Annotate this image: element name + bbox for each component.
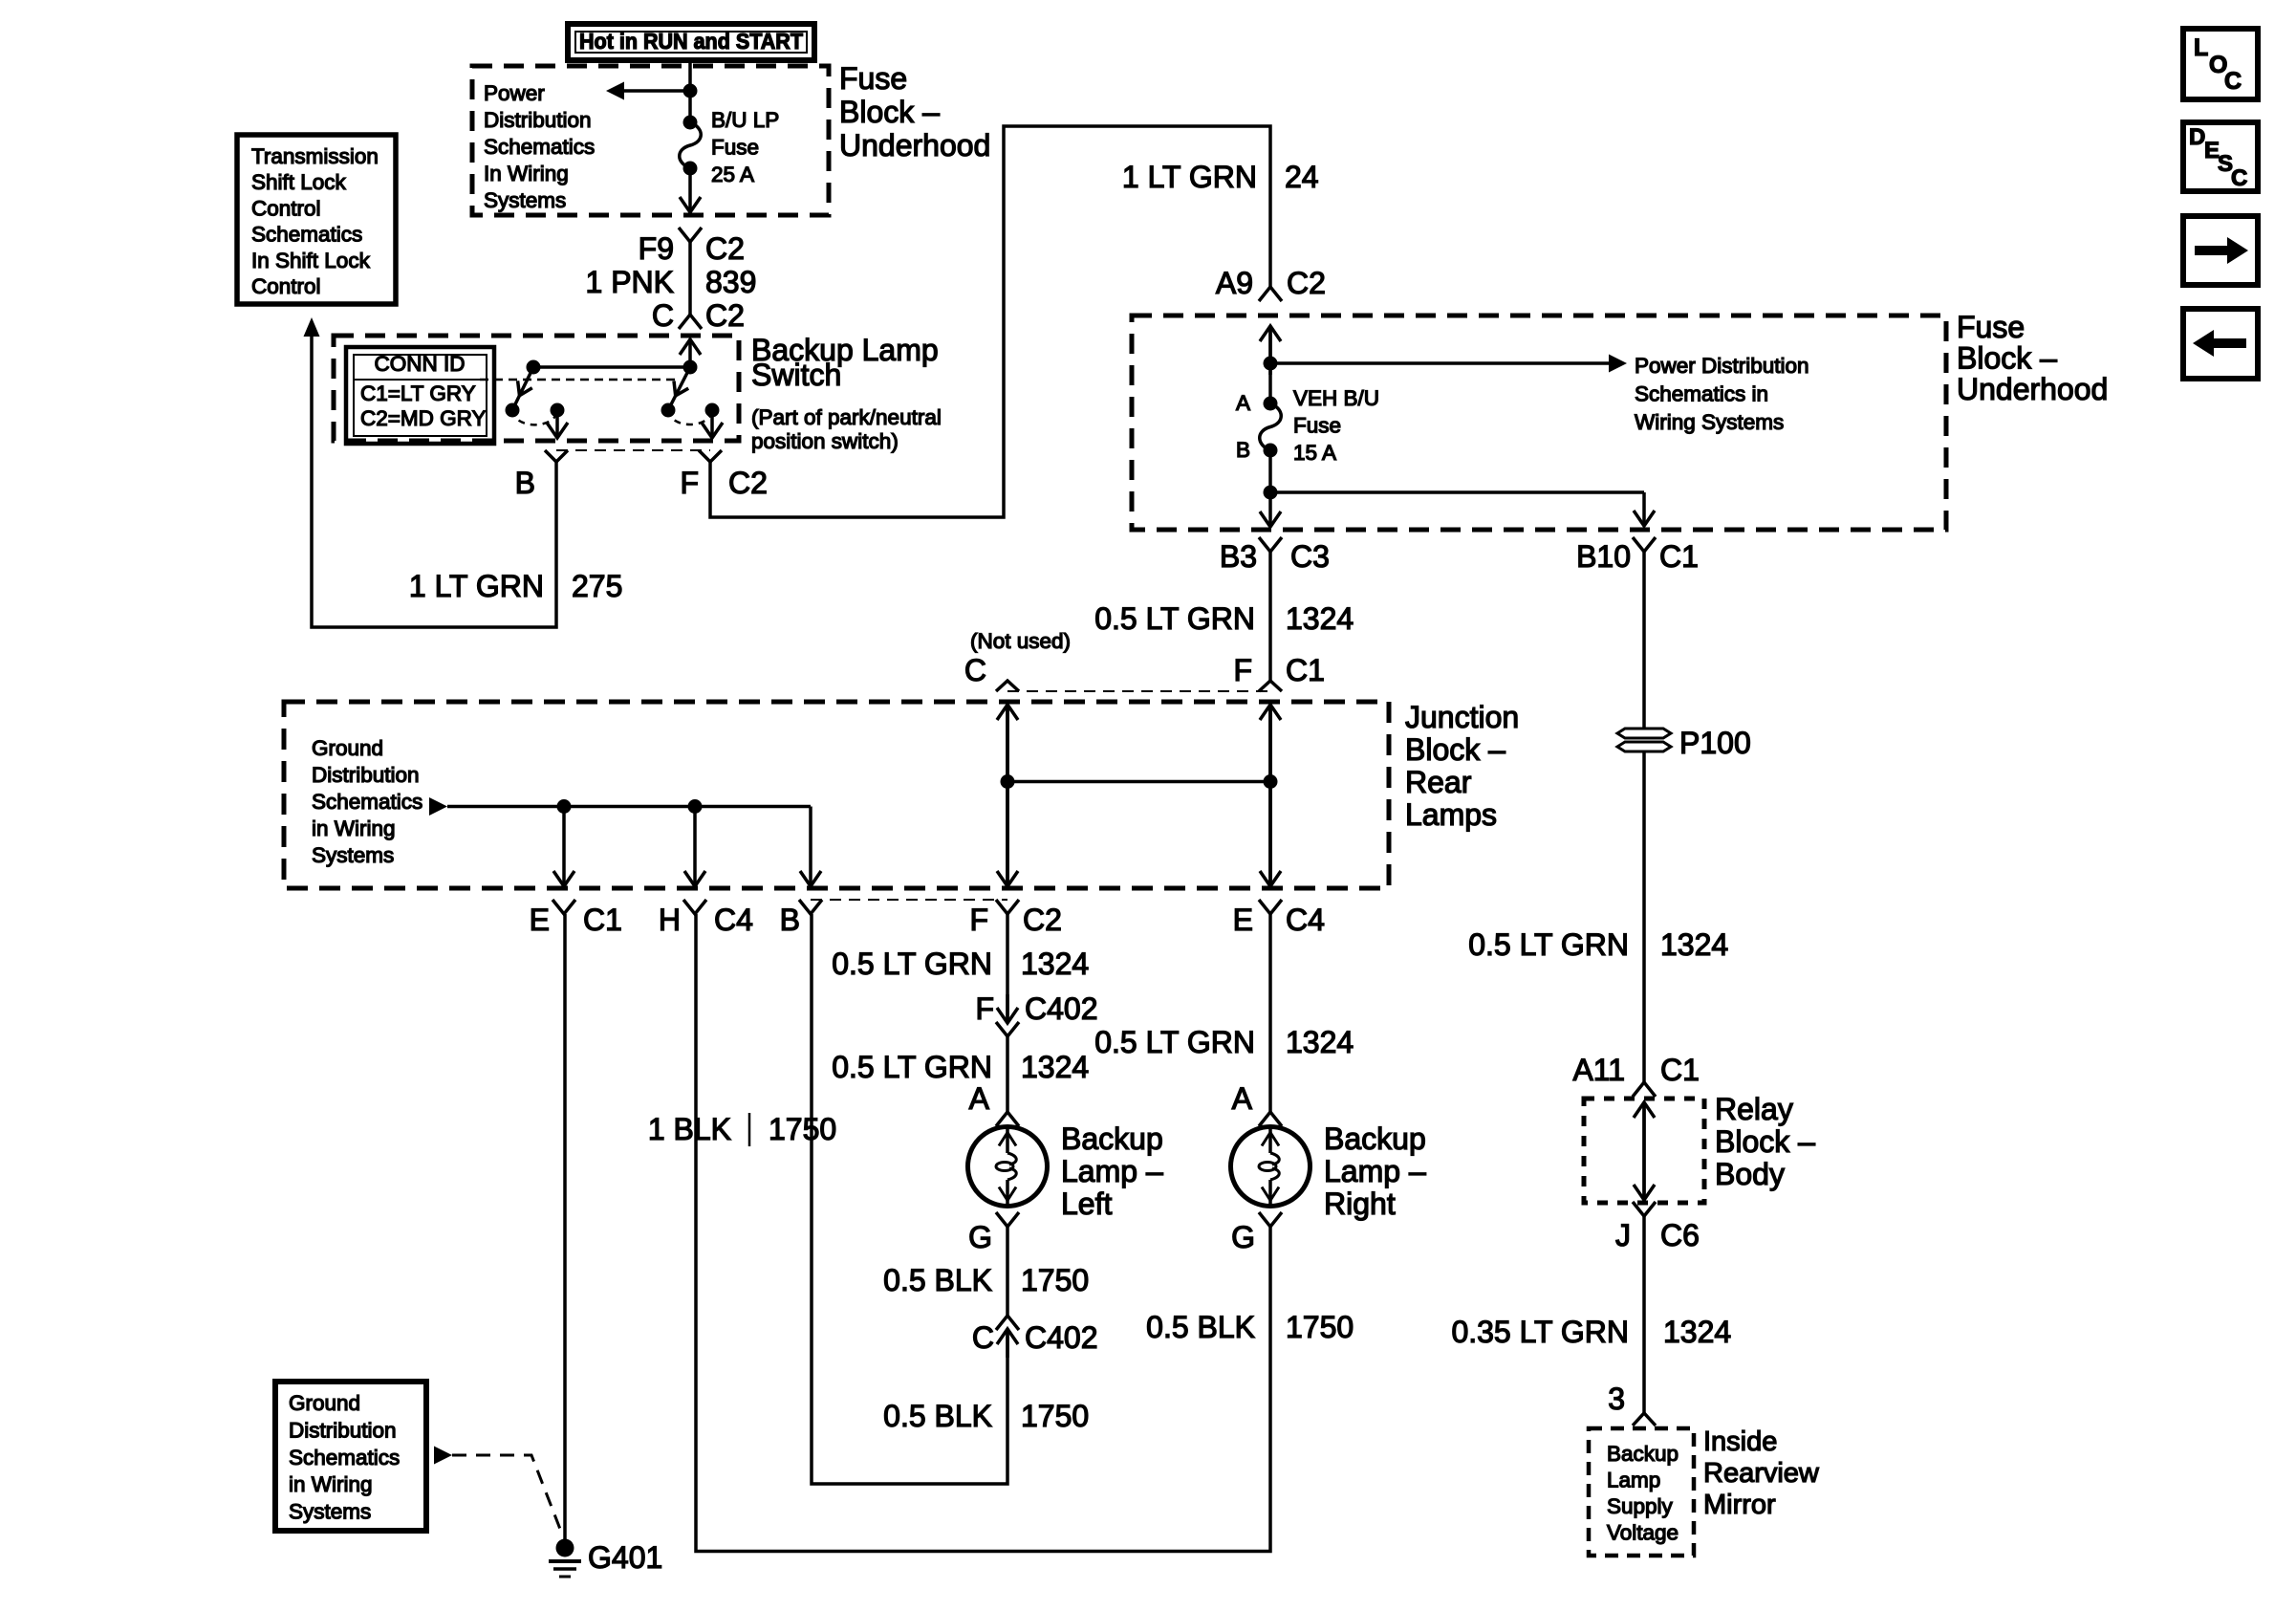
wire fuse to B3 exit xyxy=(1268,450,1272,492)
svg-text:C1: C1 xyxy=(1660,1053,1700,1087)
svg-text:Block –: Block – xyxy=(1715,1124,1815,1159)
svg-text:B3: B3 xyxy=(1220,539,1257,574)
connector chevron E C4 (junction) xyxy=(1259,900,1282,914)
inline connector C C402 xyxy=(996,1316,1019,1330)
svg-text:G: G xyxy=(1231,1220,1255,1254)
svg-text:In Shift Lock: In Shift Lock xyxy=(251,249,371,272)
svg-text:Inside: Inside xyxy=(1703,1426,1777,1457)
svg-text:24: 24 xyxy=(1285,160,1319,194)
svg-text:CONN ID: CONN ID xyxy=(375,352,466,376)
svg-text:1324: 1324 xyxy=(1660,927,1728,962)
svg-text:Backup: Backup xyxy=(1324,1121,1426,1156)
power source label box 'Hot in RUN and START' xyxy=(568,24,814,60)
node B10 branch xyxy=(1264,486,1278,500)
svg-text:0.5 BLK: 0.5 BLK xyxy=(883,1399,992,1433)
svg-text:1 PNK: 1 PNK xyxy=(586,265,674,299)
svg-text:Backup: Backup xyxy=(1061,1121,1163,1156)
svg-text:839: 839 xyxy=(705,265,756,299)
connector chevron F C2 (junction) xyxy=(996,900,1019,914)
svg-text:Schematics: Schematics xyxy=(251,223,362,247)
node bridge left xyxy=(1001,774,1015,789)
svg-text:E: E xyxy=(1233,903,1253,937)
svg-text:1750: 1750 xyxy=(1286,1310,1354,1344)
svg-text:B/U LP: B/U LP xyxy=(711,108,779,132)
reference arrow ground distribution xyxy=(429,797,447,816)
entry arrow into switch from C xyxy=(688,339,692,367)
arrow into transmission box xyxy=(304,317,320,337)
svg-text:C402: C402 xyxy=(1025,1320,1098,1355)
svg-text:Distribution: Distribution xyxy=(312,763,420,787)
exit arrow from relay block xyxy=(1642,1147,1646,1200)
svg-text:0.5 LT GRN: 0.5 LT GRN xyxy=(1094,601,1255,636)
svg-text:1324: 1324 xyxy=(1286,601,1354,636)
svg-text:in Wiring: in Wiring xyxy=(289,1472,373,1496)
svg-text:Control: Control xyxy=(251,196,321,220)
connector chevron B xyxy=(545,450,568,462)
svg-text:Power: Power xyxy=(484,81,545,105)
svg-text:C2: C2 xyxy=(705,298,745,333)
svg-text:A9: A9 xyxy=(1216,266,1253,300)
svg-text:Underhood: Underhood xyxy=(839,128,990,163)
connector chevron A (lamp right) xyxy=(1259,1112,1282,1126)
svg-text:Underhood: Underhood xyxy=(1957,372,2108,406)
junction wire F C2 vertical xyxy=(1006,705,1009,885)
svg-text:1 LT GRN: 1 LT GRN xyxy=(409,569,544,603)
svg-text:C1=LT GRY: C1=LT GRY xyxy=(360,381,476,405)
svg-text:Ground: Ground xyxy=(312,736,383,760)
wire C402 to lamp left xyxy=(1006,1036,1009,1112)
CONN ID table box xyxy=(346,347,494,444)
svg-text:Block –: Block – xyxy=(1405,732,1505,767)
svg-text:3: 3 xyxy=(1608,1382,1625,1416)
backup lamp switch dashed outline xyxy=(334,336,739,441)
connector chevron B3 C3 xyxy=(1259,537,1282,552)
node switch common right xyxy=(683,360,698,375)
svg-text:F9: F9 xyxy=(639,231,674,266)
svg-text:position switch): position switch) xyxy=(751,429,899,453)
switch blade right with arrow xyxy=(668,367,690,410)
svg-text:C2: C2 xyxy=(728,466,768,500)
svg-text:Fuse: Fuse xyxy=(839,61,907,96)
svg-text:Lamp: Lamp xyxy=(1607,1469,1660,1492)
wire branch to B10 xyxy=(1270,490,1644,494)
svg-text:C: C xyxy=(972,1320,994,1355)
svg-text:C2: C2 xyxy=(1023,903,1062,937)
svg-text:Transmission: Transmission xyxy=(251,144,379,168)
svg-text:Mirror: Mirror xyxy=(1703,1490,1776,1520)
exit arrow B10 xyxy=(1642,492,1646,526)
svg-text:B10: B10 xyxy=(1576,539,1631,574)
relay block pass-through wire xyxy=(1642,1102,1646,1200)
wire from fuse to block edge with arrow xyxy=(688,168,692,212)
svg-text:Junction: Junction xyxy=(1405,700,1519,734)
svg-text:Backup: Backup xyxy=(1607,1442,1679,1466)
svg-text:Distribution: Distribution xyxy=(289,1418,397,1442)
connector chevron C C2 xyxy=(679,315,702,329)
wire from hot-in-run box to fuse B/U LP xyxy=(688,60,692,122)
connector chevron C not used xyxy=(996,681,1019,691)
svg-text:Wiring Systems: Wiring Systems xyxy=(1635,410,1784,434)
exit arrow B3 xyxy=(1268,492,1272,527)
svg-text:Block –: Block – xyxy=(1957,341,2057,376)
junction wire E C4 vertical xyxy=(1268,705,1272,885)
svg-text:1750: 1750 xyxy=(1021,1263,1089,1297)
node ground E xyxy=(557,799,572,814)
ground drop E with arrow xyxy=(562,807,566,887)
svg-text:Rearview: Rearview xyxy=(1703,1458,1820,1489)
svg-text:G401: G401 xyxy=(588,1540,662,1575)
connector chevron A (lamp left) xyxy=(996,1112,1019,1126)
wire F to A9 fuse block underhood xyxy=(710,126,1270,517)
svg-text:C6: C6 xyxy=(1660,1218,1700,1252)
svg-text:C1: C1 xyxy=(583,903,622,937)
svg-text:E: E xyxy=(530,903,550,937)
svg-text:1324: 1324 xyxy=(1021,947,1089,981)
svg-text:F: F xyxy=(975,991,994,1026)
svg-text:C1: C1 xyxy=(1286,653,1325,687)
reference arrow from ground box xyxy=(434,1447,452,1465)
node switch common left xyxy=(527,360,541,375)
svg-text:1 BLK: 1 BLK xyxy=(648,1112,731,1146)
svg-text:1324: 1324 xyxy=(1286,1025,1354,1059)
ground distribution schematics box (bottom left) xyxy=(275,1382,426,1531)
connector C1 dashed link xyxy=(1007,690,1270,692)
svg-text:Distribution: Distribution xyxy=(484,108,592,132)
wire A9 node to fuse xyxy=(1268,326,1272,403)
svg-text:Body: Body xyxy=(1715,1157,1785,1191)
connector C2 dashed link xyxy=(556,449,710,451)
svg-text:Relay: Relay xyxy=(1715,1092,1793,1126)
svg-text:Systems: Systems xyxy=(289,1500,371,1524)
node junction on feed wire xyxy=(683,84,698,98)
wire B to C402 lower half xyxy=(812,914,1007,1484)
connector chevron G (lamp right) xyxy=(1259,1212,1282,1227)
wire E C4 to lamp right xyxy=(1268,914,1272,1112)
svg-text:Fuse: Fuse xyxy=(1957,310,2025,344)
svg-text:C1: C1 xyxy=(1659,539,1699,574)
svg-text:Fuse: Fuse xyxy=(711,136,759,160)
ground drop B with arrow xyxy=(809,807,812,823)
backup lamp left bulb xyxy=(968,1127,1048,1207)
wire B10 to P100 xyxy=(1642,552,1646,729)
svg-text:C402: C402 xyxy=(1025,991,1098,1026)
svg-text:0.35 LT GRN: 0.35 LT GRN xyxy=(1451,1315,1629,1349)
connector chevron 3 xyxy=(1633,1413,1656,1426)
wire F C2 to C402 xyxy=(1006,914,1009,1023)
svg-text:B: B xyxy=(1236,438,1250,462)
svg-text:D: D xyxy=(2189,124,2205,150)
svg-text:Shift Lock: Shift Lock xyxy=(251,170,347,194)
svg-text:Lamp –: Lamp – xyxy=(1324,1154,1426,1188)
svg-text:in Wiring: in Wiring xyxy=(312,816,396,840)
svg-text:VEH B/U: VEH B/U xyxy=(1293,386,1379,410)
connector chevron A9 C2 xyxy=(1259,287,1282,301)
svg-text:1324: 1324 xyxy=(1663,1315,1731,1349)
wire J to mirror xyxy=(1642,1216,1646,1413)
entry arrow A9 into fuse block xyxy=(1268,326,1272,375)
svg-text:(Not used): (Not used) xyxy=(970,629,1071,653)
switch blade left with arrow xyxy=(512,367,533,410)
svg-text:1750: 1750 xyxy=(1021,1399,1089,1433)
svg-text:0.5 BLK: 0.5 BLK xyxy=(883,1263,992,1297)
svg-text:A11: A11 xyxy=(1572,1053,1625,1087)
connector chevron A11 C1 xyxy=(1633,1082,1656,1097)
svg-text:A: A xyxy=(1236,391,1250,415)
switch right contact a xyxy=(661,403,676,418)
icon box arrow left xyxy=(2183,309,2258,379)
inline connector F C402 xyxy=(1006,994,1009,1023)
svg-text:C4: C4 xyxy=(1286,903,1325,937)
icon box arrow right xyxy=(2183,216,2258,285)
switch left contact a xyxy=(506,403,520,418)
svg-text:0.5 BLK: 0.5 BLK xyxy=(1146,1310,1255,1344)
svg-text:Lamp –: Lamp – xyxy=(1061,1154,1163,1188)
svg-text:C3: C3 xyxy=(1290,539,1330,574)
wire B to transmission shift lock control xyxy=(312,335,556,627)
connector chevron F9 C2 xyxy=(679,228,702,242)
svg-text:Systems: Systems xyxy=(312,843,394,867)
mechanical link dashed line xyxy=(480,379,678,381)
svg-text:1324: 1324 xyxy=(1021,1050,1089,1084)
wire E to G401 ground xyxy=(563,914,567,1540)
svg-text:Right: Right xyxy=(1324,1186,1396,1221)
svg-text:Schematics: Schematics xyxy=(484,135,595,159)
node power dist branch xyxy=(1264,357,1278,371)
node ground H xyxy=(688,799,703,814)
svg-text:H: H xyxy=(659,903,681,937)
relay block body dashed outline xyxy=(1584,1099,1704,1203)
svg-text:(Part of park/neutral: (Part of park/neutral xyxy=(751,405,942,429)
svg-text:Power Distribution: Power Distribution xyxy=(1635,354,1809,378)
svg-text:Lamps: Lamps xyxy=(1405,797,1497,832)
CONN ID separator xyxy=(354,379,487,381)
wire right pole to F with arrow xyxy=(710,410,714,438)
svg-text:G: G xyxy=(968,1220,992,1254)
connector chevron F C2 xyxy=(699,450,722,462)
reference arrow to power distribution schematics xyxy=(1270,361,1610,365)
svg-text:1 LT GRN: 1 LT GRN xyxy=(1122,160,1257,194)
connector C2 dashed link (junction) xyxy=(811,899,1007,901)
svg-text:C: C xyxy=(652,298,674,333)
svg-text:P100: P100 xyxy=(1679,726,1751,760)
svg-text:Hot in RUN and START: Hot in RUN and START xyxy=(579,29,803,54)
connector chevron B10 C1 xyxy=(1633,537,1656,552)
switch left contact arc xyxy=(512,410,557,425)
fuse B/U LP 25A symbol xyxy=(680,122,702,168)
svg-text:0.5 LT GRN: 0.5 LT GRN xyxy=(1468,927,1629,962)
svg-text:Schematics in: Schematics in xyxy=(1635,382,1768,406)
svg-text:A: A xyxy=(1232,1081,1253,1116)
svg-text:0.5 LT GRN: 0.5 LT GRN xyxy=(1094,1025,1255,1059)
switch left contact b xyxy=(551,403,565,418)
junction exit arrow F C2 xyxy=(1006,705,1009,886)
svg-text:In Wiring: In Wiring xyxy=(484,162,569,185)
wire F9 to C xyxy=(688,242,692,315)
icon box LOC xyxy=(2183,29,2258,99)
fuse VEH B/U 15A symbol xyxy=(1260,403,1282,450)
svg-text:275: 275 xyxy=(572,569,622,603)
svg-text:C2: C2 xyxy=(705,231,745,266)
svg-text:Schematics: Schematics xyxy=(312,790,422,814)
svg-text:Systems: Systems xyxy=(484,188,566,212)
svg-text:L: L xyxy=(2194,34,2208,61)
svg-text:C4: C4 xyxy=(714,903,753,937)
svg-text:F: F xyxy=(969,903,988,937)
junction exit arrow E C4 xyxy=(1268,705,1272,886)
switch right contact arc xyxy=(668,410,712,425)
svg-text:B: B xyxy=(515,466,535,500)
svg-text:Control: Control xyxy=(251,274,321,298)
svg-text:C: C xyxy=(964,653,986,687)
node bridge right xyxy=(1264,774,1278,789)
svg-text:Fuse: Fuse xyxy=(1293,414,1341,438)
svg-text:F: F xyxy=(1233,653,1252,687)
fuse block underhood (left) dashed outline xyxy=(472,66,829,215)
wire left pole to B with arrow xyxy=(555,410,559,438)
connector chevron F C1 xyxy=(1259,681,1282,691)
wire switch common bus xyxy=(533,365,690,369)
svg-text:C2: C2 xyxy=(1287,266,1326,300)
connector chevron G (lamp left) xyxy=(996,1212,1019,1227)
svg-text:1750: 1750 xyxy=(769,1112,836,1146)
svg-text:Voltage: Voltage xyxy=(1607,1521,1679,1545)
junction block rear lamps dashed outline xyxy=(284,702,1389,888)
svg-text:Left: Left xyxy=(1061,1186,1112,1221)
svg-text:Schematics: Schematics xyxy=(289,1446,400,1469)
icon box DESC xyxy=(2183,122,2258,191)
svg-text:25 A: 25 A xyxy=(711,163,754,186)
transmission shift lock control box xyxy=(237,135,396,304)
pass-through grommet P100 xyxy=(1617,729,1671,738)
svg-text:J: J xyxy=(1615,1218,1631,1252)
svg-text:C: C xyxy=(2231,165,2247,191)
svg-text:0.5 LT GRN: 0.5 LT GRN xyxy=(832,947,992,981)
svg-text:Rear: Rear xyxy=(1405,765,1472,799)
ground symbol G401 xyxy=(556,1539,574,1557)
svg-text:15 A: 15 A xyxy=(1293,441,1336,465)
entry arrow into relay block xyxy=(1642,1102,1646,1147)
svg-text:C2=MD GRY: C2=MD GRY xyxy=(360,406,487,430)
wire P100 to A11 xyxy=(1642,751,1646,1082)
svg-text:0.5 LT GRN: 0.5 LT GRN xyxy=(832,1050,992,1084)
svg-text:C: C xyxy=(2224,68,2242,95)
label divider 1 BLK/1750 xyxy=(748,1113,751,1146)
svg-text:Block –: Block – xyxy=(839,95,940,129)
svg-text:Switch: Switch xyxy=(751,358,841,392)
fuse block underhood (right) dashed outline xyxy=(1132,316,1946,530)
svg-text:Ground: Ground xyxy=(289,1391,360,1415)
wire B3 to F C1 xyxy=(1268,552,1272,681)
connector chevron J C6 xyxy=(1633,1202,1656,1216)
wire C402 to lamp left ground xyxy=(1006,1227,1009,1316)
reference arrow to power distribution (left) xyxy=(623,89,690,93)
svg-text:B: B xyxy=(780,903,800,937)
connector chevron H C4 xyxy=(683,900,706,914)
inside rearview mirror dashed outline xyxy=(1589,1428,1694,1556)
switch right contact b xyxy=(705,403,720,418)
svg-text:Supply: Supply xyxy=(1607,1494,1674,1518)
svg-text:A: A xyxy=(969,1081,990,1116)
ground drop H with arrow xyxy=(693,807,697,887)
backup lamp right bulb xyxy=(1231,1127,1310,1207)
wire H to backup lamp right ground xyxy=(696,914,1270,1552)
svg-text:F: F xyxy=(680,466,699,500)
dashed reference line to G401 xyxy=(452,1455,563,1536)
connector chevron E C1 xyxy=(552,900,575,914)
junction bridge wire xyxy=(1007,780,1270,784)
connector chevron B (junction) xyxy=(799,900,822,914)
